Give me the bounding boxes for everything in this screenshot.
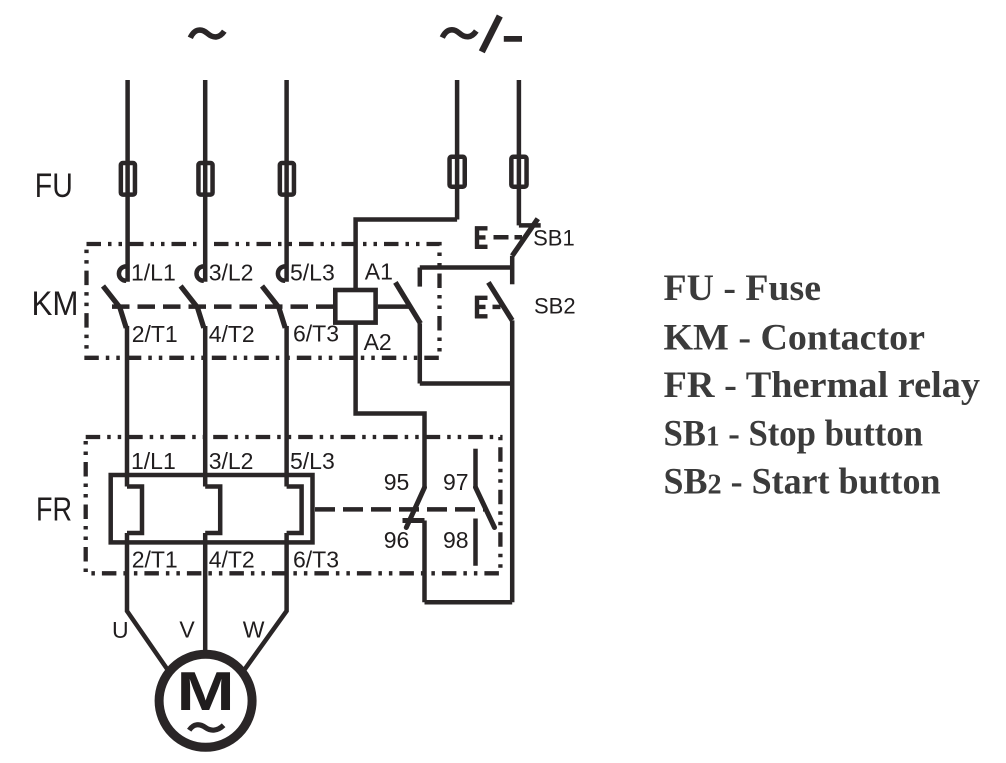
KM contact 2 terminal arc — [197, 266, 204, 280]
bottom return wire — [425, 600, 513, 605]
fuse FU5 — [511, 157, 526, 187]
wire control phase A top — [455, 80, 460, 220]
wire L1 top — [125, 80, 130, 282]
wire T1 lower: heater to motor — [127, 533, 169, 671]
wire L2 top — [203, 80, 208, 282]
svg-text:1/L1: 1/L1 — [131, 260, 176, 286]
KM coil box — [335, 290, 375, 323]
svg-text:96: 96 — [384, 527, 410, 553]
SB1 stop button fixed terminal foot — [519, 223, 541, 228]
AC/DC symbol ~/- over control lines — [442, 16, 522, 52]
svg-text:5/L3: 5/L3 — [290, 260, 335, 286]
svg-text:2/T1: 2/T1 — [132, 321, 178, 347]
svg-text:KM: KM — [32, 285, 79, 323]
svg-text:FR: FR — [36, 491, 72, 528]
KM contact 1 terminal arc — [119, 266, 126, 280]
svg-text:6/T3: 6/T3 — [293, 321, 339, 347]
FR thermal relay dash-dot box — [86, 437, 501, 573]
fuse FU1 — [121, 163, 135, 195]
svg-text:A1: A1 — [365, 259, 393, 285]
solid link coil to aux contact — [378, 304, 410, 309]
svg-text:FU - Fuse: FU - Fuse — [664, 268, 822, 309]
KM aux contact lower wire — [418, 323, 423, 383]
wire T3 lower — [244, 533, 287, 671]
svg-text:KM - Contactor: KM - Contactor — [664, 317, 926, 358]
AC symbol ~ over power lines — [190, 30, 224, 38]
svg-text:4/T2: 4/T2 — [209, 547, 255, 573]
KM contact 3 blade — [262, 286, 285, 328]
svg-text:SB1: SB1 — [533, 225, 575, 250]
svg-text:U: U — [112, 617, 129, 643]
svg-text:V: V — [179, 617, 195, 643]
svg-text:W: W — [243, 617, 265, 643]
svg-text:SB1 - Stop button: SB1 - Stop button — [664, 414, 924, 455]
wire T2 lower — [203, 533, 208, 651]
svg-text:97: 97 — [443, 469, 469, 495]
svg-text:4/T2: 4/T2 — [209, 321, 255, 347]
parallel loop bottom wire — [420, 381, 512, 386]
KM mechanical linkage dashed line — [112, 304, 333, 309]
KM contact 3 terminal arc — [278, 266, 285, 280]
FR heater bracket 3 — [287, 487, 302, 534]
FR heater bracket 1 — [127, 487, 142, 534]
svg-text:SB2 - Start button: SB2 - Start button — [664, 462, 941, 503]
FR contact 95-96 blade — [406, 488, 424, 528]
wire control phase B top (to SB1) — [517, 80, 522, 225]
motor tilde — [189, 725, 223, 730]
KM aux contact top stub — [418, 268, 423, 287]
wire A2: coil to 95 terminal — [356, 323, 425, 488]
svg-text:95: 95 — [384, 469, 410, 495]
wire T3 — [284, 326, 289, 487]
FR contact 97-98 blade — [476, 487, 495, 527]
wire SB1 bottom to junction — [510, 256, 515, 284]
SB1 actuator dashed link — [494, 235, 523, 240]
FR contact 97 terminal — [473, 449, 478, 488]
svg-text:A2: A2 — [364, 329, 392, 355]
svg-text:1/L1: 1/L1 — [131, 448, 176, 474]
wire A1 branch: fuse4 corner to coil — [356, 220, 458, 291]
SB1 blade — [512, 219, 538, 256]
svg-text:FR - Thermal relay: FR - Thermal relay — [664, 365, 981, 406]
svg-text:3/L2: 3/L2 — [209, 260, 254, 286]
KM aux contact blade — [395, 282, 420, 323]
wire T2 — [203, 326, 208, 487]
svg-text:3/L2: 3/L2 — [209, 448, 254, 474]
FR linkage dashed line — [315, 507, 484, 512]
SB2 actuator E — [475, 296, 488, 319]
FR heater outer rectangle — [111, 475, 313, 542]
svg-text:SB2: SB2 — [534, 294, 576, 319]
svg-text:FU: FU — [35, 167, 73, 205]
svg-text:6/T3: 6/T3 — [293, 547, 339, 573]
svg-text:98: 98 — [443, 527, 469, 553]
SB2 start button blade — [488, 282, 512, 320]
FR contact 98 terminal — [473, 519, 478, 566]
svg-text:M: M — [177, 660, 235, 722]
fuse FU2 — [198, 163, 212, 195]
wire junction horizontal to aux contact — [420, 265, 512, 270]
FR heater bracket 2 — [205, 487, 220, 534]
KM contactor dash-dot box — [87, 244, 440, 358]
KM contact 1 blade — [103, 286, 126, 328]
motor M circle — [159, 654, 252, 747]
wire T1: KM contact1 down through FR heater top — [125, 326, 130, 487]
SB2 actuator dashed link — [493, 305, 501, 310]
svg-text:2/T1: 2/T1 — [132, 547, 178, 573]
wire 96 down — [422, 521, 427, 603]
SB1 actuator E — [475, 226, 488, 249]
svg-text:5/L3: 5/L3 — [290, 448, 335, 474]
SB2 lower wire down — [510, 320, 515, 602]
KM contact 2 blade — [181, 286, 204, 328]
fuse FU4 — [450, 157, 465, 187]
fuse FU3 — [280, 163, 294, 195]
FR contact 96 bar — [403, 518, 425, 523]
wire L3 top — [284, 80, 289, 282]
